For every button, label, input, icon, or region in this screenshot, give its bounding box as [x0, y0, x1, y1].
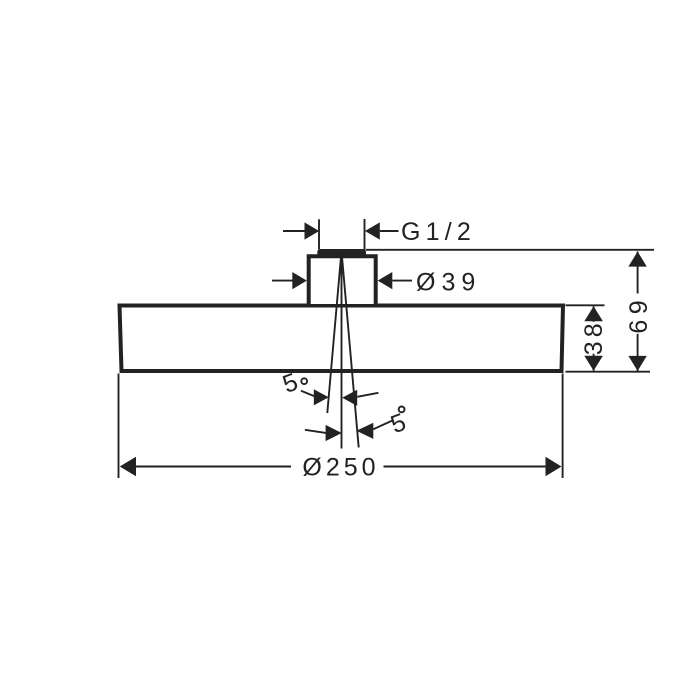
G1/2 arrow right — [365, 222, 380, 239]
svg-text:G1/2: G1/2 — [401, 218, 476, 246]
connector block (ceiling connector) — [309, 256, 376, 304]
5deg upper tail — [357, 393, 378, 397]
label 5deg upper degree ring — [301, 378, 307, 384]
5deg lower arrow right — [356, 423, 373, 439]
Ø250 dimension line left — [135, 466, 291, 468]
shower head body (side profile slab) — [120, 306, 564, 372]
38 dimension line — [593, 306, 595, 371]
spray line right 5deg — [342, 251, 359, 448]
38 arrow top — [584, 306, 603, 321]
69 arrow bottom — [628, 356, 646, 371]
Ø250 arrow right — [546, 457, 562, 477]
5deg lower arrow left — [326, 425, 342, 441]
5deg lower tail — [305, 430, 326, 433]
38 extension line top — [566, 304, 605, 306]
Ø250 extension line left — [118, 374, 120, 479]
svg-text:Ø250: Ø250 — [302, 454, 379, 482]
Ø39 arrow left — [292, 272, 307, 289]
5deg upper arrow left — [314, 389, 329, 405]
G1/2 extension line right — [364, 219, 366, 251]
svg-text:Ø39: Ø39 — [416, 268, 481, 296]
5deg upper leader — [301, 391, 315, 397]
69 arrow top — [628, 252, 646, 267]
svg-text:69: 69 — [625, 295, 653, 334]
Ø39 dimension tail left — [272, 280, 293, 282]
label 69 backing — [628, 294, 648, 334]
thread cap G1/2 (filled) — [317, 249, 366, 256]
38 arrow bottom — [584, 356, 603, 371]
69 extension line top — [366, 249, 654, 251]
label 38 backing — [584, 322, 604, 354]
Ø250 arrow left — [120, 457, 136, 477]
Ø250 extension line right — [562, 374, 564, 479]
G1/2 dimension tail left — [283, 230, 305, 232]
G1/2 dimension tail right — [380, 230, 399, 232]
svg-text:38: 38 — [580, 319, 608, 355]
5deg upper arrow right — [342, 390, 357, 406]
spray centerline — [341, 251, 343, 449]
Ø39 arrow right — [378, 272, 393, 289]
Ø250 dimension line right — [384, 466, 547, 468]
G1/2 extension line left — [318, 219, 320, 249]
G1/2 arrow left — [305, 222, 320, 239]
69 dimension line — [637, 252, 639, 372]
Ø39 dimension tail right — [392, 280, 412, 282]
label 5deg lower degree ring — [399, 407, 405, 413]
spray line left 5deg — [327, 251, 341, 413]
5deg lower leader — [373, 421, 392, 430]
38 extension line bottom — [566, 371, 651, 373]
